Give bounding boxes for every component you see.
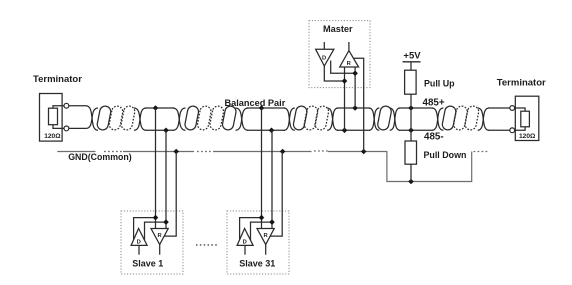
- wire gnd dotted right end: [474, 151, 488, 153]
- wire master R side to gnd: [354, 58, 364, 151]
- wire Slave 31 485+ drop: [261, 108, 263, 229]
- resistor pull-down: [405, 141, 417, 164]
- twisted pair section 5: [432, 105, 489, 131]
- receiver R Slave 1: [151, 229, 168, 255]
- svg-text:Terminator: Terminator: [497, 78, 546, 89]
- right terminator box: [515, 96, 539, 140]
- node gnd slave31 tap: [280, 149, 286, 155]
- resistor R-term-right 120 ohm: [515, 108, 530, 130]
- wire bus flat slave31 top: [247, 107, 285, 109]
- twisted pair section 1: [86, 105, 146, 131]
- wire bus flat slave1 bottom: [145, 129, 174, 131]
- node Slave 31 junction a: [259, 215, 265, 221]
- svg-text:120Ω: 120Ω: [519, 133, 536, 140]
- wire Slave 31 gnd drop to R side: [270, 152, 282, 237]
- wire bus flat slave1 top: [145, 107, 174, 109]
- wire master D out to 485- node: [324, 66, 344, 81]
- wire master R in / down to 485+: [354, 67, 356, 108]
- wire Slave 1 485+ drop: [155, 108, 157, 229]
- wire Slave 31 485- drop: [271, 130, 273, 228]
- wire bus right flat top: [488, 107, 510, 109]
- wire 485+ to 485-: [410, 108, 412, 130]
- wire bus flat master bottom: [337, 129, 370, 131]
- wire gnd dotted 3: [314, 150, 328, 152]
- node Slave 1 junction a: [153, 215, 159, 221]
- twisted pair section 2: [173, 105, 248, 131]
- svg-text:Slave 31: Slave 31: [239, 258, 275, 268]
- receiver R master: [340, 42, 359, 67]
- wire pulldown to gnd: [410, 164, 412, 181]
- wire Slave 1 gnd drop to R side: [164, 152, 176, 237]
- node master 485- tap: [342, 128, 348, 134]
- wire bus left flat top: [69, 105, 86, 107]
- svg-text:Pull Up: Pull Up: [424, 79, 455, 89]
- svg-text:D: D: [137, 239, 141, 245]
- driver D Slave 1: [131, 229, 147, 255]
- resistor pull-up: [405, 70, 417, 94]
- svg-text:+5V: +5V: [403, 51, 421, 62]
- wire gnd segment 1: [57, 151, 95, 153]
- wire gnd dotted 1: [104, 151, 123, 153]
- driver D Slave 31: [237, 229, 253, 255]
- left terminator box: [40, 94, 63, 142]
- svg-text:485+: 485+: [423, 97, 445, 108]
- svg-text:Pull Down: Pull Down: [424, 150, 467, 160]
- node pullup 485+ tap: [408, 105, 414, 111]
- twisted pair section 4: [369, 105, 400, 131]
- receiver R Slave 31: [257, 229, 274, 255]
- svg-text:Slave 1: Slave 1: [132, 258, 163, 268]
- node slave1 485+ tap: [153, 105, 159, 111]
- wire Slave 1 485- drop: [165, 130, 167, 228]
- wire gnd dotted 2: [197, 151, 213, 153]
- wire Slave 31 branch to D right: [251, 222, 273, 240]
- node master D/R junction a: [342, 78, 348, 84]
- wire bus flat slave31 bottom: [247, 129, 285, 131]
- twisted pair section 3: [284, 105, 338, 131]
- wire bus flat pull bottom: [399, 129, 433, 131]
- wire gnd segment 2: [123, 151, 194, 153]
- driver D master: [316, 42, 334, 66]
- wire Slave 31 branch to D left: [240, 218, 262, 240]
- node Slave 31 junction b: [269, 219, 275, 225]
- left terminator terminal bottom: [64, 126, 69, 131]
- node slave31 485+ tap: [259, 105, 265, 111]
- wire gnd segment 3: [213, 151, 312, 153]
- wire Slave 1 branch to D left: [134, 218, 156, 240]
- wire gnd segment 4 with jog under pulldown: [328, 152, 472, 182]
- wire 485- to pulldown: [410, 130, 412, 141]
- svg-text:Master: Master: [323, 24, 353, 34]
- svg-text:Terminator: Terminator: [33, 74, 82, 85]
- node gnd master tap: [361, 149, 367, 155]
- wire pullup to 485+: [410, 94, 412, 108]
- node master 485+ tap: [352, 105, 358, 111]
- node gnd slave1 tap: [173, 149, 179, 155]
- wire master D side tap to 485+ node: [331, 61, 355, 74]
- svg-text:D: D: [243, 239, 247, 245]
- node gnd pulldown tap: [408, 179, 414, 185]
- node pulldown 485- tap: [408, 128, 414, 134]
- wire bus flat master top: [337, 107, 370, 109]
- wire +5V to pullup: [410, 62, 412, 70]
- resistor R-term-left 120 ohm: [49, 106, 65, 129]
- svg-text:GND(Common): GND(Common): [68, 152, 132, 162]
- slave box Slave 1: [121, 211, 183, 274]
- wire bus flat pull top: [399, 107, 433, 109]
- wire bus left flat bottom: [69, 127, 86, 129]
- right terminator terminal bottom: [510, 128, 515, 133]
- slave box Slave 31: [227, 211, 289, 274]
- right terminator terminal top: [510, 106, 515, 111]
- svg-text:D: D: [322, 56, 326, 62]
- +5V supply bar: [403, 61, 421, 63]
- svg-text:Balanced Pair: Balanced Pair: [225, 98, 286, 108]
- wire bus right flat bottom: [488, 129, 510, 131]
- node Slave 1 junction b: [163, 219, 169, 225]
- wire master R in / down to 485-: [344, 67, 346, 130]
- ellipsis between slaves: [196, 244, 217, 246]
- wire Slave 1 branch to D right: [145, 222, 167, 240]
- svg-text:120Ω: 120Ω: [44, 133, 61, 140]
- node slave1 485- tap: [163, 128, 169, 134]
- node slave31 485- tap: [269, 128, 275, 134]
- node master D/R junction b: [352, 71, 358, 77]
- master box: [309, 21, 370, 88]
- left terminator terminal top: [64, 103, 69, 108]
- svg-text:485-: 485-: [424, 132, 444, 143]
